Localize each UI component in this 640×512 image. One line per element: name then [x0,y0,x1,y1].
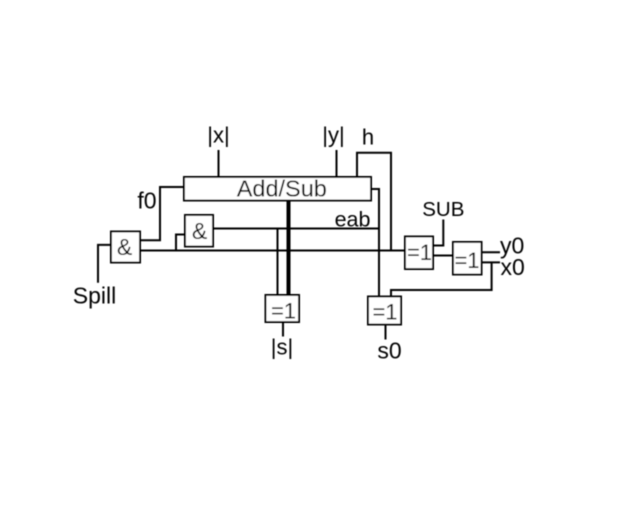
svg-text:f0: f0 [137,188,156,214]
wire SUB input [433,220,443,246]
xor-gate XOR |s| [266,295,300,322]
xor-gate XOR U4 [453,242,482,275]
svg-text:=1: =1 [271,299,296,324]
svg-text:&: & [117,234,132,260]
svg-text:Add/Sub: Add/Sub [237,176,327,202]
wire AND2 output [213,228,380,230]
wire eab net [371,189,379,297]
and-gate AND1 [111,232,140,263]
wire h net [357,153,391,252]
wire |s| output [282,322,284,337]
xor-gate XOR U3 [405,237,433,270]
wire AND1 output bus [140,250,405,252]
wire tee to AND2 input [176,235,185,251]
and-gate AND2 [185,215,213,247]
xor-gate XOR s0 [368,297,401,325]
svg-text:|y|: |y| [322,123,344,148]
wire s0 output [385,325,387,340]
wire y0 output [482,251,501,253]
svg-text:=1: =1 [454,248,479,273]
wire Spill input [98,245,111,283]
svg-text:=1: =1 [407,240,432,265]
wire x0 output [482,261,501,263]
svg-text:s0: s0 [377,338,401,364]
wire thin branch to XOR |s| [277,229,279,296]
svg-text:=1: =1 [372,300,397,325]
Add/Sub unit U1 [184,177,371,201]
svg-text:h: h [362,125,374,150]
wire x0 feedback to XOR s0 [391,262,492,296]
svg-text:Spill: Spill [73,283,116,309]
wire XOR U3 to XOR U4 [433,255,453,257]
wire |y| input [336,150,338,177]
svg-text:&: & [192,218,207,244]
svg-text:|s|: |s| [271,335,293,360]
svg-text:SUB: SUB [422,198,464,221]
svg-text:eab: eab [335,208,371,232]
svg-text:|x|: |x| [207,123,229,148]
wire |x| input [218,150,220,177]
svg-text:x0: x0 [501,254,525,280]
wire f0 net [140,187,184,240]
wire thick bus Add/Sub to XOR |s| [287,201,291,296]
